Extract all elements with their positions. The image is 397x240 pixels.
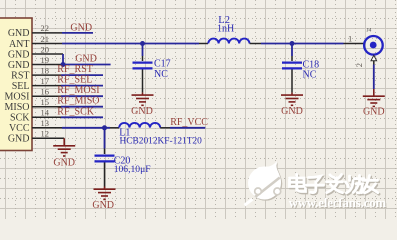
pin 22 GND (pin line) (32, 32, 62, 34)
svg-text:GND: GND (281, 106, 303, 117)
capacitor C17 pin 2 (142, 70, 144, 93)
ground label GND (pin 12) (53, 157, 75, 168)
pin 14 SCK (pin line) (32, 116, 61, 118)
svg-text:14: 14 (41, 108, 50, 118)
svg-text:21: 21 (41, 34, 50, 44)
net label RF_SCK (57, 106, 94, 117)
pin 15 name MISO (4, 102, 29, 113)
pin 19 name GND (8, 60, 30, 71)
designator C18 (303, 60, 320, 71)
junction pin19/pin20 (61, 62, 66, 67)
pin 12 name GND (8, 134, 30, 145)
net label RF_MISO (57, 96, 99, 107)
coax connector J4 center dot (370, 42, 377, 49)
svg-text:GND: GND (8, 60, 30, 71)
svg-text:NC: NC (303, 70, 317, 81)
pin 17 number (41, 76, 50, 86)
pin 18 number (41, 65, 50, 75)
value NC (C17) (154, 69, 168, 80)
svg-text:GND: GND (8, 28, 30, 39)
inductor L1 humps (119, 123, 160, 128)
designator L1 (119, 127, 130, 138)
svg-text:SEL: SEL (12, 81, 30, 92)
wire L1 to RF_VCC (170, 127, 205, 129)
pin 1 number (connector) (348, 34, 352, 44)
svg-text:ANT: ANT (9, 39, 30, 50)
capacitor C17 (NC) top wire (142, 44, 144, 57)
capacitor C20 plates (95, 156, 115, 162)
pin 17 SEL (pin line) (32, 85, 61, 87)
capacitor C18 pin 1 (291, 56, 293, 61)
capacitor C20 pin 2 (104, 163, 106, 187)
inductor L2 pin 2 (250, 43, 261, 45)
coax connector J4 body circle (364, 36, 383, 55)
inductor L1 pin 1 (110, 127, 119, 129)
svg-text:GND: GND (8, 49, 30, 60)
pin 15 MISO (pin line) (32, 106, 61, 108)
svg-text:GND: GND (53, 157, 75, 168)
junction at C17 tap (140, 41, 145, 46)
svg-text:GND: GND (363, 107, 385, 118)
pin 21 name ANT (9, 39, 30, 50)
svg-text:GND: GND (75, 53, 97, 64)
svg-text:GND: GND (92, 200, 114, 211)
capacitor C18 (NC) top wire (291, 44, 293, 57)
svg-text:1: 1 (348, 34, 352, 44)
pin 20 number (41, 44, 50, 54)
svg-text:MOSI: MOSI (4, 92, 29, 103)
svg-text:www.elecfans.com: www.elecfans.com (289, 196, 387, 210)
junction at C18 tap (290, 41, 295, 46)
svg-text:VCC: VCC (9, 123, 30, 134)
wire ANT net: pin21 to L2 (62, 43, 199, 45)
designator J4 (tiny) (367, 28, 372, 34)
ground label GND (C17) (131, 106, 153, 117)
wire L2 to connector (261, 43, 344, 45)
ground symbol below C17 (132, 93, 154, 106)
pin 19 number (41, 55, 50, 65)
svg-text:RF_RST: RF_RST (57, 64, 93, 75)
svg-text:16: 16 (41, 87, 50, 97)
ground label GND (connector) (363, 107, 385, 118)
net label RF_SEL (57, 75, 92, 86)
svg-text:RF_SCK: RF_SCK (57, 106, 94, 117)
ground symbol below connector (363, 89, 385, 106)
svg-text:RF_SEL: RF_SEL (57, 75, 92, 86)
capacitor C18 plates (282, 63, 302, 69)
svg-text:15: 15 (41, 97, 50, 107)
inductor L1 pin 2 (160, 127, 170, 129)
connector module body (yellow box, clipped at left edge) (0, 18, 32, 151)
svg-text:20: 20 (41, 44, 50, 54)
capacitor C17 pin 1 (142, 56, 144, 61)
pin 20 GND (pin line) (32, 53, 63, 55)
capacitor C18 pin 2 (291, 70, 293, 93)
net label GND (pin 19) (75, 53, 97, 64)
svg-text:12: 12 (41, 129, 50, 139)
pin 13 VCC (pin line) (32, 127, 62, 129)
net label RF_MOSI (57, 85, 99, 96)
svg-text:J4: J4 (367, 28, 372, 34)
svg-text:RST: RST (11, 70, 29, 81)
watermark logo (elecfans) (245, 161, 283, 205)
wire pin20 down to pin19 (62, 54, 64, 65)
wire pin13 to L1 (62, 127, 110, 129)
pin 2 number (connector, rotated) (354, 63, 364, 67)
pin 20 name GND (8, 49, 30, 60)
net label RF_VCC (170, 117, 208, 128)
pin 18 RST (pin line) (32, 74, 61, 76)
junction at C20 tap (102, 125, 107, 130)
pin 13 number (41, 118, 50, 128)
svg-text:GND: GND (70, 23, 92, 34)
pin 21 ANT (pin line) (32, 43, 62, 45)
ground label GND (C18) (281, 106, 303, 117)
wire RF_SCK (61, 116, 103, 118)
capacitor C17 plates (133, 63, 153, 69)
inductor L2 pin 1 (199, 43, 208, 45)
pin 17 name SEL (12, 81, 30, 92)
capacitor C20 top wire (104, 128, 106, 149)
svg-text:19: 19 (41, 55, 50, 65)
pin 15 number (41, 97, 50, 107)
net label GND (pin 22) (70, 23, 92, 34)
pin 14 name SCK (10, 113, 30, 124)
svg-text:MISO: MISO (4, 102, 29, 113)
svg-text:GND: GND (131, 106, 153, 117)
net label RF_RST (57, 64, 93, 75)
svg-text:18: 18 (41, 65, 50, 75)
watermark text www.elecfans.com (289, 196, 388, 211)
wire RF_MISO (61, 106, 103, 108)
svg-text:SCK: SCK (10, 113, 30, 124)
value NC (C18) (303, 70, 317, 81)
value 1nH (L2) (217, 23, 234, 34)
svg-text:RF_VCC: RF_VCC (170, 117, 208, 128)
svg-text:GND: GND (8, 134, 30, 145)
pin 12 number (41, 129, 50, 139)
ground symbol below C20 (94, 187, 116, 200)
svg-text:RF_MOSI: RF_MOSI (57, 85, 99, 96)
designator C20 (114, 156, 131, 167)
pin 22 name GND (8, 28, 30, 39)
pin 16 MOSI (pin line) (32, 95, 61, 97)
pin 19 GND (pin line) (32, 64, 63, 66)
wire RF_RST (61, 74, 103, 76)
designator L2 (218, 15, 230, 26)
svg-text:106,10μF: 106,10μF (114, 164, 151, 175)
ground symbol below pin 12 (53, 138, 75, 156)
value HCB2012KF-121T20 (L1) (120, 137, 203, 147)
svg-text:1nH: 1nH (217, 23, 234, 34)
inductor L2 humps (208, 39, 249, 44)
svg-text:2: 2 (354, 63, 364, 67)
svg-text:HCB2012KF-121T20: HCB2012KF-121T20 (120, 137, 203, 147)
pin 22 number (41, 23, 50, 33)
wire pin22 to GND net label (62, 32, 93, 34)
pin 16 number (41, 87, 50, 97)
pin 21 number (41, 34, 50, 44)
svg-text:RF_MISO: RF_MISO (57, 96, 99, 107)
pin 18 name RST (11, 70, 29, 81)
pin 16 name MOSI (4, 92, 29, 103)
wire RF_MOSI (61, 95, 103, 97)
svg-text:22: 22 (41, 23, 50, 33)
coax connector J4 pin 2 arrow (371, 55, 377, 60)
svg-text:17: 17 (41, 76, 50, 86)
svg-text:13: 13 (41, 118, 50, 128)
wire RF_SEL (61, 85, 103, 87)
svg-text:C17: C17 (154, 59, 171, 70)
wire pin19 to GND net label (63, 64, 111, 66)
wire connector to ground (373, 65, 375, 90)
designator C17 (154, 59, 171, 70)
pin 12 GND (pin line) (32, 137, 64, 139)
capacitor C20 pin 1 (104, 149, 106, 155)
svg-text:NC: NC (154, 69, 168, 80)
coax connector J4 pin 2 stub (373, 61, 375, 65)
watermark text 电子发烧友 (stroke approximation) (291, 176, 379, 194)
pin 14 number (41, 108, 50, 118)
coax connector J4 pin 1 (344, 43, 365, 45)
ground symbol below C18 (281, 93, 303, 106)
pin 13 name VCC (9, 123, 30, 134)
value 106,10uF (C20) (114, 164, 151, 175)
ground label GND (C20) (92, 200, 114, 211)
